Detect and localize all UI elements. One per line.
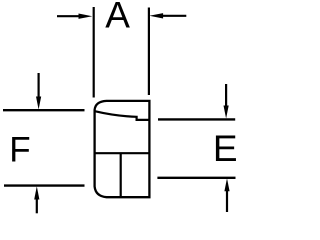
svg-text:E: E — [213, 128, 238, 169]
dimension line A left with arrowhead — [57, 14, 92, 19]
arrow E up — [224, 178, 229, 212]
svg-text:F: F — [9, 131, 30, 170]
nut body outline — [95, 101, 150, 197]
svg-text:A: A — [105, 0, 130, 36]
dimension line E top — [158, 118, 235, 120]
dimension line E bottom — [157, 177, 235, 179]
dimension line A right with arrowhead — [149, 13, 186, 18]
arrow E down — [224, 84, 229, 119]
vertical divider line — [120, 153, 122, 197]
dimension line F bottom — [4, 184, 85, 186]
dimension line F top — [3, 109, 85, 111]
mid horizontal line — [95, 152, 150, 154]
arrow F up — [34, 186, 39, 213]
chamfer line with step — [95, 111, 150, 120]
arrow F down — [36, 73, 41, 110]
extension line A right — [148, 8, 150, 96]
extension line A left — [93, 7, 95, 98]
